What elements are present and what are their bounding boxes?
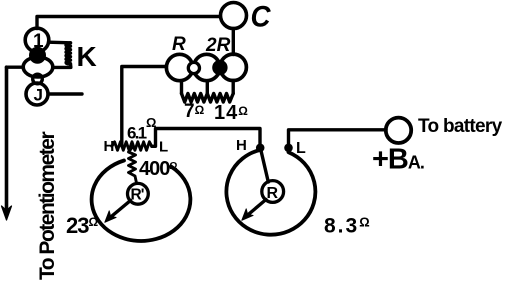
svg-text:R': R' <box>131 187 144 204</box>
filled node between <box>214 62 226 74</box>
wire to potentiometer horizontal <box>7 65 24 68</box>
meter movement circle R' <box>127 183 148 204</box>
terminal dot L right meter <box>286 145 291 150</box>
contact circle J <box>26 83 48 105</box>
svg-text:To Potentiometer: To Potentiometer <box>36 132 59 280</box>
needle arrowhead R' <box>105 211 116 223</box>
wire top from contact 1 to C <box>37 17 220 29</box>
svg-text:To battery: To battery <box>418 116 503 137</box>
svg-text:2R: 2R <box>205 35 231 56</box>
relay coil K top wire <box>49 41 71 45</box>
stem 1 <box>180 81 183 94</box>
resistor circle 2R <box>220 54 246 80</box>
svg-text:J: J <box>34 86 43 105</box>
small node circle between R and 2R <box>188 62 199 73</box>
svg-text:R: R <box>172 34 186 55</box>
stem 3 <box>231 81 234 94</box>
contact circle 1 <box>25 28 49 52</box>
needle R <box>247 200 267 217</box>
lead H to movement <box>261 149 269 183</box>
svg-text:H: H <box>236 137 247 154</box>
resistor 6.1ohm zigzag <box>112 142 152 151</box>
svg-text:6.1: 6.1 <box>127 124 147 143</box>
svg-text:K: K <box>77 41 97 72</box>
resistor 400ohm zigzag vertical <box>129 148 137 183</box>
needle arrowhead R <box>242 209 253 221</box>
needle R' <box>110 201 131 219</box>
svg-text:L: L <box>159 139 168 156</box>
wire L to right meter H <box>152 129 260 148</box>
svg-text:Ω: Ω <box>146 115 156 130</box>
svg-text:C: C <box>251 1 272 34</box>
svg-text:R: R <box>267 185 279 202</box>
meter movement circle R <box>262 181 284 203</box>
wire to potentiometer vertical with arrow <box>5 67 9 212</box>
resistor circle middle <box>194 54 220 80</box>
svg-text:H: H <box>104 138 115 155</box>
left meter body ellipse <box>92 161 191 241</box>
wire C to 2R circle <box>232 29 235 55</box>
right meter body circle <box>226 150 315 235</box>
resistor circle R <box>166 54 192 80</box>
terminal C circle <box>221 3 247 29</box>
arrowhead potentiometer <box>2 206 12 220</box>
svg-text:1: 1 <box>33 31 44 52</box>
resistor 14ohm zigzag <box>207 94 233 103</box>
battery terminal circle <box>386 118 411 143</box>
armature ellipse <box>23 57 53 77</box>
terminal dot H right meter <box>258 145 263 150</box>
contact filled dot <box>31 48 45 62</box>
stem 2 <box>206 81 209 94</box>
small contact circle <box>33 74 43 84</box>
svg-text:L: L <box>296 140 306 157</box>
wire L terminal right meter to battery <box>289 130 387 148</box>
relay coil K winding <box>66 43 71 68</box>
relay coil K bottom wire <box>53 66 71 69</box>
resistor 7ohm zigzag <box>182 94 208 103</box>
wire cluster left <box>122 67 167 147</box>
wire from J <box>49 92 83 95</box>
